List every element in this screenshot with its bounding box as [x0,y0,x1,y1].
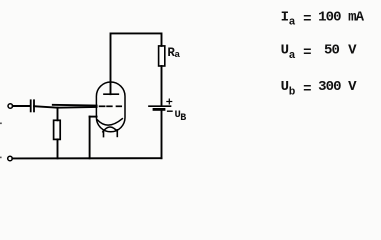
wire [57,139,59,158]
tube grid dashes [100,105,122,107]
svg-text:mA: mA [348,9,365,25]
svg-text:I: I [281,9,289,25]
label Ia = 100 mA [281,9,365,28]
svg-text:U: U [281,43,289,59]
tube anode plate [104,93,118,95]
wire top [111,33,162,94]
wire cathode down [89,117,91,159]
wire cathode stub [90,116,97,118]
speck left edge 2 [0,157,2,159]
wire ground rail [12,157,161,159]
tube heater leg 2 [116,130,118,137]
input terminal top [8,104,13,109]
battery - sign [168,110,172,112]
wire [13,105,30,107]
resistor Ra anode [159,46,165,66]
svg-text:=: = [303,12,311,28]
svg-text:100: 100 [318,9,341,25]
wire [161,111,163,159]
wire [57,108,59,121]
wire grid lead [53,104,97,107]
battery UB plate - [154,108,164,111]
wire [34,106,97,108]
input terminal bottom [8,156,13,161]
svg-text:a: a [289,17,296,29]
speck left edge 1 [0,123,2,125]
battery + sign [167,101,172,103]
tube V1 envelope [96,82,125,132]
svg-text:50: 50 [324,43,340,59]
svg-text:U: U [281,79,289,95]
label Ua = 50 V [281,43,358,62]
tube cathode arc [97,119,122,125]
capacitor C1 [30,100,32,111]
svg-text:b: b [289,86,296,98]
svg-text:V: V [348,79,357,95]
svg-text:=: = [303,45,311,61]
tube heater dome [103,127,117,132]
svg-text:V: V [348,43,357,59]
svg-text:=: = [303,81,311,97]
svg-text:300: 300 [318,79,341,95]
battery UB plate + [149,105,171,107]
svg-text:a: a [174,49,180,60]
svg-text:a: a [289,50,296,62]
resistor R1 grid leak [54,120,61,139]
label Ub = 300 V [281,79,358,98]
wire [161,66,163,105]
svg-text:B: B [180,113,186,124]
tube heater leg 1 [103,131,105,137]
